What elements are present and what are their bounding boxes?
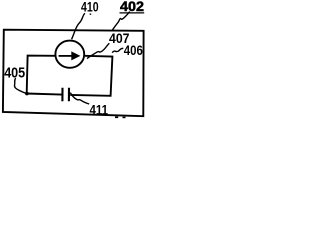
svg-text:405: 405 — [4, 65, 25, 81]
svg-text:406: 406 — [124, 42, 143, 58]
svg-text:411: 411 — [90, 101, 109, 117]
svg-text:410: 410 — [81, 0, 99, 15]
svg-text:402: 402 — [120, 0, 144, 14]
